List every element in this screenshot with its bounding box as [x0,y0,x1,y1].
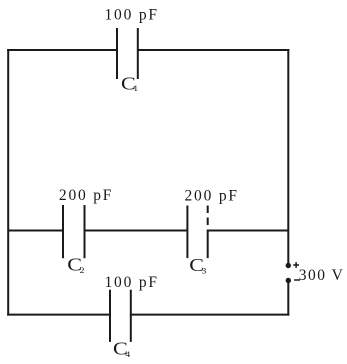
svg-text:C2: C2 [67,255,84,275]
svg-text:100 pF: 100 pF [105,274,159,291]
svg-text:C1: C1 [121,75,138,95]
svg-text:100 pF: 100 pF [105,7,159,24]
svg-text:300 V: 300 V [299,267,345,284]
svg-text:200 pF: 200 pF [59,187,113,204]
svg-text:200 pF: 200 pF [185,188,239,205]
